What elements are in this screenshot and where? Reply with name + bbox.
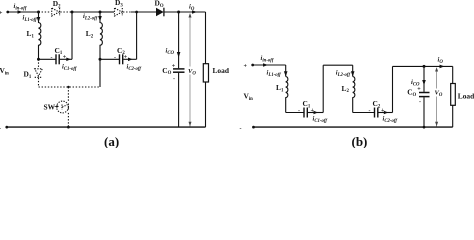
capacitor CO bbox=[173, 68, 185, 70]
svg-text:(a): (a) bbox=[104, 134, 119, 148]
current arrow i_C1-off bbox=[66, 58, 71, 62]
inductor L2 (b) bbox=[353, 77, 355, 113]
capacitor C2 (b) bbox=[374, 108, 376, 118]
svg-text:(b): (b) bbox=[352, 134, 368, 148]
wire: corner down to L1 (b) bbox=[285, 65, 287, 77]
diode D3 (dashed) bbox=[115, 8, 123, 16]
wire: node B to node C solid bbox=[72, 11, 100, 13]
wire: top rail (b) bbox=[253, 64, 286, 66]
node K junction bottom of CO (b) bbox=[423, 126, 426, 129]
wire: C1 to corner (b) bbox=[308, 112, 323, 114]
svg-text:-: - bbox=[173, 77, 175, 83]
svg-text:+: + bbox=[172, 64, 176, 70]
wire: bottom rail (b) bbox=[254, 126, 453, 128]
current arrow i_C2-off bbox=[128, 58, 133, 62]
svg-text:-: - bbox=[114, 55, 116, 61]
wire: vertical up from C2 (b) bbox=[392, 66, 394, 112]
wire: CO bottom lead bbox=[178, 73, 180, 127]
node B junction bbox=[71, 11, 74, 14]
voltage arrow V_O (a) bbox=[189, 16, 191, 127]
current arrow i_CO bbox=[177, 52, 181, 58]
node: bottom terminal dot bbox=[5, 126, 8, 129]
switch SW (dashed circle with transistor) bbox=[57, 101, 69, 113]
wire: load bottom lead (b) bbox=[452, 105, 454, 127]
current arrow i_CO (b) bbox=[422, 80, 426, 85]
wire: CO top lead (b) bbox=[423, 66, 425, 92]
wire: dashed D1 to dashed rail bbox=[38, 78, 40, 87]
wire: L2 bottom down to dashed rail bbox=[99, 59, 101, 87]
node I junction (L2 bottom) bbox=[99, 58, 102, 61]
node D junction dot bbox=[135, 11, 138, 14]
wire: vertical up from C1 (b) bbox=[322, 65, 324, 112]
wire: DO to load corner bbox=[165, 11, 206, 13]
wire: L1 bottom to C1 bbox=[39, 58, 56, 60]
svg-text:Load: Load bbox=[213, 66, 230, 75]
node E junction (top of CO) bbox=[177, 11, 180, 14]
svg-text:SW: SW bbox=[44, 103, 56, 112]
voltage arrow V_O (b) bbox=[436, 70, 438, 127]
svg-text:-: - bbox=[0, 126, 1, 132]
label V_O (b) bbox=[434, 89, 443, 97]
capacitor C1 bbox=[55, 54, 57, 64]
label V_O (a) bbox=[188, 67, 197, 75]
current arrow i_L2-off bbox=[98, 16, 102, 22]
node H junction on bottom rail bbox=[67, 126, 70, 129]
diode D2 (dashed) bbox=[52, 8, 60, 16]
wire: CO top lead bbox=[178, 12, 180, 68]
current arrow i_in-off (b) bbox=[263, 63, 268, 67]
wire: node C to D3 bbox=[100, 11, 114, 13]
wire: dashed D3 to node D bbox=[123, 11, 131, 13]
load resistor box (b) bbox=[451, 84, 456, 106]
wire: input top rail solid segment bbox=[8, 11, 39, 13]
wire: node D to diode DO bbox=[131, 11, 156, 13]
wire: vertical C2 right to node D bbox=[136, 12, 138, 59]
inductor L1 bbox=[39, 12, 41, 59]
wire: L1 bottom to C1 (b) bbox=[286, 112, 304, 114]
node F junction (L1 bottom) bbox=[37, 58, 40, 61]
wire: dashed to D2 bbox=[39, 11, 51, 13]
capacitor CO (b) bbox=[419, 92, 430, 94]
wire: load bottom lead bbox=[205, 82, 207, 127]
node: bottom terminal dot (b) bbox=[252, 126, 255, 129]
arrow SW pointer bbox=[55, 105, 59, 107]
wire: load top lead (b) bbox=[452, 66, 454, 83]
wire: dashed SW source to bottom rail bbox=[67, 113, 69, 127]
svg-text:-: - bbox=[419, 100, 421, 106]
inductor L1 (b) bbox=[286, 77, 288, 113]
wire: dashed SW drain bbox=[67, 87, 69, 102]
current arrow i_L1-off (b) bbox=[284, 71, 288, 76]
svg-text:-: - bbox=[51, 55, 53, 61]
svg-text:+: + bbox=[417, 87, 421, 93]
wire: CO bottom lead (b) bbox=[423, 97, 425, 127]
current arrow i_C1-off (b) bbox=[314, 111, 319, 115]
node A junction (top of L1) bbox=[37, 11, 40, 14]
load resistor box (a) bbox=[203, 64, 208, 82]
wire: bottom rail (a) bbox=[7, 126, 206, 128]
current arrow i_C2-off (b) bbox=[384, 111, 389, 115]
wire: C1 to corner bbox=[60, 58, 72, 60]
node: input terminal dot bbox=[6, 11, 9, 14]
svg-text:-: - bbox=[298, 109, 300, 115]
wire: L2 bottom to C2 bbox=[100, 58, 119, 60]
svg-text:Load: Load bbox=[458, 91, 474, 100]
node G dashed junction bbox=[67, 86, 69, 88]
wire: load top lead bbox=[205, 12, 207, 64]
inductor L2 bbox=[100, 12, 102, 59]
svg-text:-: - bbox=[240, 126, 242, 132]
node: input terminal dot (b) bbox=[251, 64, 254, 67]
node J junction top of CO (b) bbox=[423, 65, 426, 68]
capacitor C2 bbox=[119, 54, 121, 64]
diode DO (solid) bbox=[156, 8, 164, 17]
node C junction (top of L2) bbox=[99, 11, 102, 14]
current arrow i_L2-off (b) bbox=[351, 71, 355, 76]
current arrow i_o bbox=[192, 10, 197, 14]
current arrow i_in-off bbox=[18, 10, 23, 14]
capacitor C1 (b) bbox=[303, 108, 305, 118]
svg-text:+: + bbox=[244, 64, 248, 70]
current arrow i_o (b) bbox=[440, 65, 445, 69]
wire: dashed horizontal rail bbox=[39, 86, 101, 88]
wire: output rail (b) bbox=[393, 65, 453, 67]
current arrow i_L1-off bbox=[37, 17, 41, 23]
diode D1 (dashed, pointing down) bbox=[35, 69, 43, 76]
wire: C2 to corner bbox=[123, 58, 136, 60]
wire: vertical C1 right to node B bbox=[71, 12, 73, 59]
wire: dashed D2 to node B bbox=[60, 11, 72, 13]
wire: corner down to L2 (b) bbox=[352, 65, 354, 76]
wire: C2 to corner (b) bbox=[378, 112, 392, 114]
wire: middle bracket top (b) bbox=[323, 64, 353, 66]
svg-text:-: - bbox=[369, 109, 371, 115]
wire: dashed D1 top lead bbox=[38, 59, 40, 68]
wire: L2 bottom to C2 (b) bbox=[353, 112, 374, 114]
